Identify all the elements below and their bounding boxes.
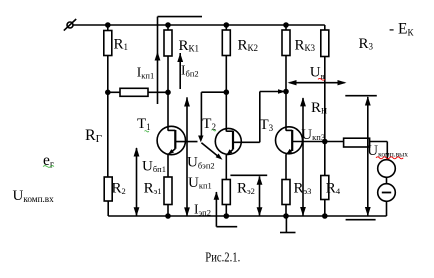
- svg-text:Рис.2.1.: Рис.2.1.: [205, 250, 240, 265]
